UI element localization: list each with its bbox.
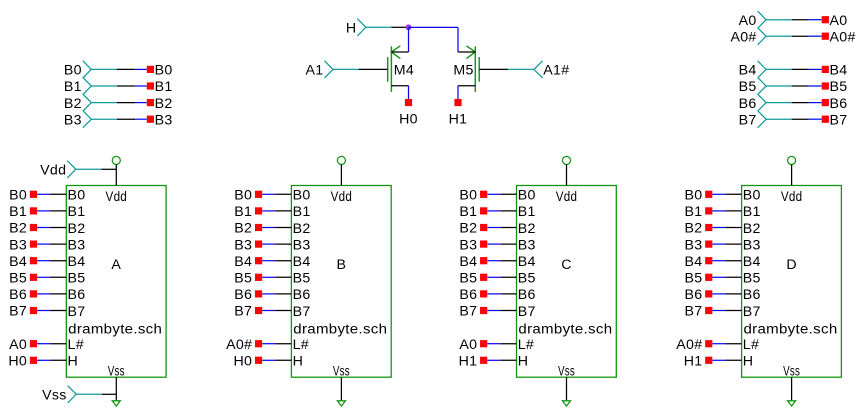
wire B7 to B [275,310,291,312]
svg-text:B0: B0 [64,63,82,79]
wire label B6@A [30,290,37,297]
wire label H1 square [454,99,461,106]
svg-text:H0: H0 [399,111,418,127]
wire B7 net segment [809,118,822,120]
wire B1 net A [37,210,50,212]
svg-text:Vss: Vss [333,363,350,379]
wire B7 to D [725,310,741,312]
svg-text:L#: L# [293,337,309,353]
svg-text:B3: B3 [68,237,86,253]
wire B4 net C [487,260,500,262]
wire H down to M5 drain [457,27,459,52]
wire B1 net C [487,210,500,212]
svg-text:Vdd: Vdd [331,189,353,205]
wire B4 to B [275,260,291,262]
wire label B3@A [30,241,37,248]
svg-text:B4: B4 [830,63,848,79]
subcircuit instance B (drambyte.sch) [291,186,391,378]
wire label H1@C [480,357,487,364]
wire B5 to B [275,276,291,278]
svg-text:A0#: A0# [830,29,856,45]
svg-text:D: D [786,257,797,273]
wire B2 net C [487,227,500,229]
svg-text:B2: B2 [459,221,477,237]
svg-text:Vdd: Vdd [40,163,66,179]
svg-text:H1: H1 [684,354,703,370]
svg-text:B5: B5 [743,271,761,287]
wire Vss stem B [340,377,342,401]
wire H net D [712,359,725,361]
wire B5 to D [725,276,741,278]
wire B2 to A [50,227,66,229]
wire B5 net B [262,276,275,278]
svg-text:B5: B5 [293,271,311,287]
wire label B7@C [480,307,487,314]
wire B4 to A [50,260,66,262]
svg-text:B2: B2 [155,96,173,112]
svg-text:B1: B1 [68,204,86,220]
svg-text:drambyte.sch: drambyte.sch [518,321,612,337]
wire label B2@C [480,224,487,231]
supply terminal circle Vdd of C [562,156,570,164]
wire L# net B [262,343,275,345]
wire Vdd stem C [566,165,568,186]
wire label B2 [147,99,154,106]
svg-text:B7: B7 [684,304,702,320]
wire B0 to B [275,193,291,195]
wire B5 net A [37,276,50,278]
wire B1 net segment [135,85,147,87]
svg-text:B2: B2 [9,221,27,237]
svg-text:B6: B6 [743,287,761,303]
wire L# net A [37,343,50,345]
wire B7 left segment [792,118,809,120]
svg-text:B1: B1 [9,204,27,220]
svg-text:drambyte.sch: drambyte.sch [293,321,387,337]
svg-text:B6: B6 [293,287,311,303]
wire A0# net segment [809,35,822,37]
wire B7 net D [712,310,725,312]
wire Vss rail [102,393,117,395]
wire B3 to B [275,243,291,245]
ground symbol Vss of B [337,401,345,406]
svg-text:Vdd: Vdd [556,189,578,205]
wire M4 source to H0 [408,86,410,99]
svg-text:B4: B4 [743,254,761,270]
svg-text:H1: H1 [459,354,478,370]
svg-text:B7: B7 [68,304,86,320]
wire label B3@C [480,241,487,248]
wire B4 net B [262,260,275,262]
wire B0 net A [37,193,50,195]
svg-text:B2: B2 [743,221,761,237]
wire B2 net segment [135,102,147,104]
wire A0 left segment [792,19,809,21]
wire label B7@B [255,307,262,314]
wire Vdd rail [101,168,116,170]
wire label B0@C [480,191,487,198]
wire H down to M4 drain [408,27,410,52]
wire B0 to D [725,193,741,195]
svg-text:H: H [518,354,529,370]
svg-text:B7: B7 [234,304,252,320]
supply terminal circle Vdd of D [788,156,796,164]
wire label B4@B [255,257,262,264]
svg-text:B7: B7 [830,112,848,128]
wire B4 net D [712,260,725,262]
svg-text:drambyte.sch: drambyte.sch [744,321,838,337]
svg-text:Vss: Vss [108,363,125,379]
svg-text:B2: B2 [293,221,311,237]
wire A1# gate lead [479,68,508,70]
wire label A0# [822,33,829,40]
svg-text:B0: B0 [684,188,702,204]
wire label B5@C [480,274,487,281]
wire label B1@A [30,207,37,214]
svg-text:B7: B7 [293,304,311,320]
wire L# net D [712,343,725,345]
wire label B1@B [255,207,262,214]
wire B4 left segment [792,68,809,70]
wire B6 net B [262,293,275,295]
wire B6 to D [725,293,741,295]
svg-text:B2: B2 [518,221,536,237]
svg-text:B0: B0 [293,188,311,204]
svg-text:B7: B7 [743,304,761,320]
svg-text:Vss: Vss [42,388,67,404]
wire B2 to B [275,227,291,229]
wire B4 net A [37,260,50,262]
svg-text:L#: L# [743,337,759,353]
svg-text:B0: B0 [234,188,252,204]
subcircuit instance D (drambyte.sch) [742,186,842,378]
svg-text:Vdd: Vdd [106,189,128,205]
wire B0 net C [487,193,500,195]
wire B6 net D [712,293,725,295]
wire label A0#@D [705,340,712,347]
wire B2 left segment [117,102,135,104]
svg-text:B4: B4 [9,254,27,270]
wire B5 net C [487,276,500,278]
svg-text:B4: B4 [234,254,252,270]
wire label B0@B [255,191,262,198]
wire B0 to A [50,193,66,195]
wire Vdd stem D [791,165,793,186]
wire B3 net segment [135,118,147,120]
wire label A0@A [30,340,37,347]
wire Vss stem A [115,377,117,401]
wire B0 net B [262,193,275,195]
wire B1 left segment [117,85,135,87]
svg-text:B5: B5 [739,79,757,95]
wire B5 left segment [792,85,809,87]
wire B3 to D [725,243,741,245]
wire label A0 [822,16,829,23]
wire H net B [262,359,275,361]
wire L# to D [725,343,741,345]
wire H to C [500,359,516,361]
transistor M5 [466,46,479,92]
wire label A0@C [480,340,487,347]
svg-text:B6: B6 [739,96,757,112]
wire B5 net segment [809,85,822,87]
wire label B1@C [480,207,487,214]
svg-text:B1: B1 [518,204,536,220]
wire B6 to B [275,293,291,295]
wire label B3@D [705,241,712,248]
svg-text:B1: B1 [684,204,702,220]
svg-text:B: B [337,257,347,273]
wire label B5@A [30,274,37,281]
wire Vdd stem A [115,165,117,186]
svg-text:B5: B5 [518,271,536,287]
wire label H0@B [255,357,262,364]
wire B1 to B [275,210,291,212]
svg-text:H: H [68,354,79,370]
wire B3 to C [500,243,516,245]
svg-text:B5: B5 [684,271,702,287]
wire H to M5 drain [409,26,459,28]
svg-text:B6: B6 [9,287,27,303]
wire B3 net D [712,243,725,245]
svg-text:A0: A0 [830,13,848,29]
wire label B5 [822,82,829,89]
svg-text:B3: B3 [684,237,702,253]
wire label B3@B [255,241,262,248]
wire B2 to C [500,227,516,229]
svg-text:B4: B4 [293,254,311,270]
svg-text:B0: B0 [155,63,173,79]
wire label B1 [147,82,154,89]
svg-text:B3: B3 [518,237,536,253]
wire B6 to C [500,293,516,295]
wire label H0@A [30,357,37,364]
svg-text:A: A [111,257,121,273]
wire B2 net B [262,227,275,229]
svg-text:B3: B3 [9,237,27,253]
svg-text:B6: B6 [684,287,702,303]
wire B6 to A [50,293,66,295]
svg-text:B6: B6 [234,287,252,303]
wire B2 net A [37,227,50,229]
wire B1 net B [262,210,275,212]
svg-text:H: H [293,354,304,370]
svg-text:B4: B4 [739,63,757,79]
wire B1 to C [500,210,516,212]
wire B6 net segment [809,102,822,104]
svg-text:B6: B6 [68,287,86,303]
svg-text:B5: B5 [234,271,252,287]
svg-text:B3: B3 [293,237,311,253]
wire B6 net A [37,293,50,295]
svg-text:B3: B3 [64,112,82,128]
svg-text:Vss: Vss [783,363,800,379]
wire L# to B [275,343,291,345]
svg-text:H: H [346,21,357,37]
svg-text:B6: B6 [459,287,477,303]
svg-text:B1: B1 [234,204,252,220]
wire H to D [725,359,741,361]
wire L# to A [50,343,66,345]
svg-text:M4: M4 [394,62,414,78]
wire B7 to A [50,310,66,312]
svg-text:B7: B7 [739,112,757,128]
wire label A0#@B [255,340,262,347]
wire label B2@D [705,224,712,231]
wire B5 to A [50,276,66,278]
wire B4 to D [725,260,741,262]
svg-text:B4: B4 [684,254,702,270]
wire label B6 [822,99,829,106]
wire label B3 [147,116,154,123]
wire H net A [37,359,50,361]
wire M5 source to H1 [457,86,459,99]
wire label B7@D [705,307,712,314]
svg-text:B7: B7 [459,304,477,320]
svg-text:B0: B0 [459,188,477,204]
svg-text:B0: B0 [518,188,536,204]
svg-text:A1: A1 [306,63,324,79]
wire B1 to A [50,210,66,212]
wire label B1@D [705,207,712,214]
svg-text:B4: B4 [518,254,536,270]
wire label B2@B [255,224,262,231]
svg-text:B5: B5 [830,79,848,95]
svg-text:B7: B7 [9,304,27,320]
wire B4 to C [500,260,516,262]
wire L# net C [487,343,500,345]
wire label B5@B [255,274,262,281]
junction dot node H [406,24,412,30]
svg-text:C: C [561,257,572,273]
svg-text:B5: B5 [459,271,477,287]
svg-text:B1: B1 [293,204,311,220]
svg-text:B1: B1 [743,204,761,220]
subcircuit instance A (drambyte.sch) [66,186,166,378]
wire B0 net D [712,193,725,195]
transistor M4 [388,46,401,92]
svg-text:B7: B7 [518,304,536,320]
supply terminal circle Vdd of A [112,156,120,164]
svg-text:B3: B3 [743,237,761,253]
wire Vdd stem B [340,165,342,186]
wire label B4@A [30,257,37,264]
svg-text:A0#: A0# [226,337,252,353]
svg-text:A0#: A0# [676,337,702,353]
wire label B5@D [705,274,712,281]
svg-text:A0: A0 [9,337,27,353]
svg-text:B3: B3 [459,237,477,253]
wire label B7 [822,116,829,123]
wire H to A [50,359,66,361]
svg-text:A0#: A0# [730,29,756,45]
svg-text:A0: A0 [459,337,477,353]
wire B3 to A [50,243,66,245]
svg-text:L#: L# [68,337,84,353]
wire B5 to C [500,276,516,278]
wire A0 net segment [809,19,822,21]
wire label B4@C [480,257,487,264]
svg-text:B5: B5 [9,271,27,287]
svg-text:B4: B4 [459,254,477,270]
wire B6 left segment [792,102,809,104]
svg-text:B0: B0 [9,188,27,204]
svg-text:H1: H1 [449,111,468,127]
wire B0 left segment [117,68,135,70]
svg-text:B6: B6 [518,287,536,303]
wire label H0 square [405,99,412,106]
svg-text:B0: B0 [743,188,761,204]
svg-text:H0: H0 [8,354,27,370]
wire B6 net C [487,293,500,295]
wire B7 net B [262,310,275,312]
wire label B0@A [30,191,37,198]
wire B4 net segment [809,68,822,70]
wire label B7@A [30,307,37,314]
supply terminal circle Vdd of B [337,156,345,164]
wire B3 net C [487,243,500,245]
wire B1 net D [712,210,725,212]
subcircuit instance C (drambyte.sch) [517,186,617,378]
wire L# to C [500,343,516,345]
wire label B6@C [480,290,487,297]
wire H lead [392,26,407,28]
wire A1 gate lead [359,68,388,70]
svg-text:A1#: A1# [543,63,569,79]
svg-text:B3: B3 [155,112,173,128]
svg-text:B1: B1 [155,79,173,95]
svg-text:Vdd: Vdd [781,189,803,205]
wire label B4@D [705,257,712,264]
wire B2 to D [725,227,741,229]
wire label B4 [822,66,829,73]
svg-text:H: H [743,354,754,370]
wire H to B [275,359,291,361]
svg-text:B6: B6 [830,96,848,112]
wire B3 net A [37,243,50,245]
wire label B6@B [255,290,262,297]
svg-text:L#: L# [518,337,534,353]
svg-text:drambyte.sch: drambyte.sch [68,321,162,337]
wire H net C [487,359,500,361]
svg-text:B5: B5 [68,271,86,287]
wire label B0 [147,66,154,73]
wire B7 to C [500,310,516,312]
svg-text:B1: B1 [459,204,477,220]
svg-text:B4: B4 [68,254,86,270]
wire label B6@D [705,290,712,297]
wire Vss stem D [791,377,793,401]
svg-text:M5: M5 [453,62,473,78]
svg-text:B2: B2 [68,221,86,237]
wire B1 to D [725,210,741,212]
svg-text:B2: B2 [234,221,252,237]
wire B0 to C [500,193,516,195]
wire A0# left segment [792,35,809,37]
wire B5 net D [712,276,725,278]
ground symbol Vss of A [112,401,120,406]
svg-text:B2: B2 [684,221,702,237]
svg-text:B0: B0 [68,188,86,204]
svg-text:B2: B2 [64,96,82,112]
wire label B2@A [30,224,37,231]
svg-text:H0: H0 [234,354,253,370]
wire Vss stem C [566,377,568,401]
wire B7 net A [37,310,50,312]
ground symbol Vss of C [563,401,571,406]
svg-text:B1: B1 [64,79,82,95]
svg-text:Vss: Vss [558,363,575,379]
